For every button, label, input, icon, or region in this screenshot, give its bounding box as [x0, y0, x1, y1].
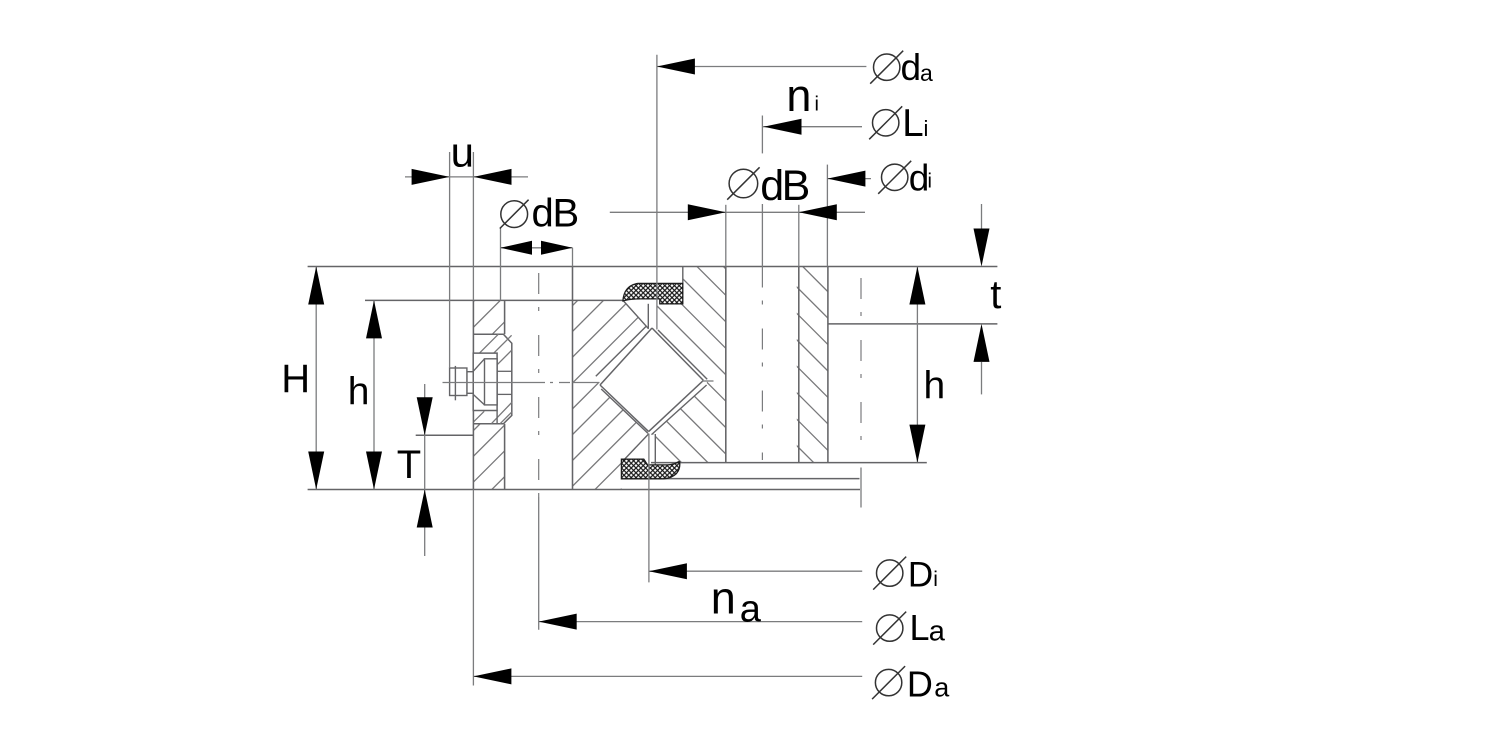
label dB outer [501, 201, 528, 228]
svg-text:h: h [348, 371, 370, 414]
roller diamond lower-right edge [649, 380, 704, 431]
top seal [623, 283, 683, 304]
svg-text:L: L [902, 102, 923, 145]
svg-text:i: i [928, 171, 932, 193]
svg-text:d: d [532, 192, 554, 236]
support lip line [621, 478, 860, 480]
roller axis stub right [702, 380, 714, 382]
outer ring raceway groove line upper-left [596, 326, 646, 376]
label da [874, 54, 900, 80]
grease fitting neck [467, 372, 473, 394]
bottom seal [621, 459, 679, 479]
dimension H [315, 267, 317, 490]
ring gap line below roller [654, 434, 656, 465]
svg-text:D: D [908, 555, 933, 594]
svg-text:a: a [934, 673, 950, 703]
dimension h outer [373, 300, 375, 489]
bottom face line of inner ring [651, 462, 927, 464]
svg-text:n: n [711, 572, 736, 623]
inner ring hole left wall and dB extension [725, 205, 727, 267]
dimension dB inner ring [610, 211, 726, 213]
svg-text:D: D [907, 663, 933, 704]
outer ring raceway groove line lower-left [601, 389, 648, 433]
inner ring step line t [828, 323, 998, 325]
svg-text:B: B [782, 162, 811, 210]
bore centerline right [860, 278, 862, 455]
fitting thread bore walls [497, 370, 512, 372]
dimension t [981, 204, 983, 229]
svg-text:u: u [451, 129, 474, 176]
bolt hole left wall of outer ring [504, 300, 506, 334]
dimension T [424, 384, 426, 556]
outer ring bolt circle centerline La [538, 273, 540, 497]
svg-text:n: n [786, 70, 811, 121]
label Da [875, 669, 901, 695]
grease fitting axis centerline [443, 382, 535, 384]
roller diamond upper-left edge [600, 328, 652, 385]
dimension h inner [916, 267, 918, 463]
ring gap line above roller [647, 304, 649, 329]
grease fitting tip [450, 368, 467, 396]
bolt hole right wall of outer ring and dB extension [572, 248, 574, 267]
outer ring outer face and Da extension line [472, 152, 474, 300]
inner ring bolt circle centerline Li [761, 267, 763, 461]
dimension Di [648, 434, 650, 583]
svg-text:d: d [901, 47, 922, 88]
dimension da [656, 55, 658, 330]
svg-text:a: a [740, 589, 762, 631]
dimension dB outer ring [501, 247, 573, 249]
label Di [877, 560, 903, 586]
grease fitting hex flats [485, 359, 498, 405]
svg-text:h: h [924, 365, 946, 408]
T step line on outer ring [416, 434, 474, 436]
roller axis stub left [573, 382, 600, 384]
dimension u [405, 176, 450, 178]
grease fitting cone [473, 359, 484, 405]
outer ring seal-land chamfer top [623, 301, 648, 329]
roller diamond lower-left edge [600, 385, 649, 432]
svg-text:i: i [924, 116, 929, 141]
svg-text:t: t [990, 273, 1001, 317]
grease fitting counterbore cavity [473, 334, 512, 424]
bottom face line of outer ring [308, 489, 860, 491]
grease fitting head silhouette [473, 353, 497, 410]
svg-text:B: B [553, 192, 580, 236]
counterbore corner hatch lines [480, 334, 499, 353]
seal pocket wall of inner ring [682, 267, 684, 284]
inner ring raceway groove line lower-right [652, 385, 707, 435]
inner ring bore surface and di extension [826, 165, 828, 267]
dimension di [827, 178, 871, 180]
inner ring hole right wall [798, 205, 800, 267]
svg-text:T: T [397, 443, 421, 487]
svg-text:a: a [929, 616, 946, 648]
dimension La / n a [539, 621, 863, 623]
label La [877, 615, 903, 641]
inner ring raceway groove line upper-right [658, 330, 707, 379]
label di [882, 164, 908, 190]
grease fitting ball check line [454, 366, 456, 400]
top face line of outer ring with h extension [365, 299, 623, 301]
svg-text:i: i [815, 94, 819, 116]
top face line of inner ring [308, 266, 998, 268]
dimension Da [473, 675, 862, 677]
roller diamond upper-right edge [652, 328, 703, 380]
dimension n i / Li [763, 126, 862, 128]
label Li [873, 110, 899, 136]
outer ring seal-land chamfer bottom [623, 434, 649, 461]
svg-text:d: d [909, 157, 930, 198]
dB extension line left [500, 228, 502, 300]
svg-text:L: L [910, 607, 930, 648]
svg-text:i: i [933, 568, 938, 591]
svg-text:a: a [920, 60, 933, 86]
label dB inner [729, 169, 758, 198]
svg-text:H: H [281, 357, 310, 401]
